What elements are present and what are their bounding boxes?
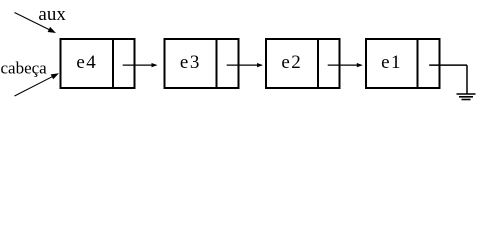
- svg-text:e1: e1: [381, 52, 402, 73]
- svg-text:cabeça: cabeça: [1, 59, 48, 78]
- svg-text:aux: aux: [38, 4, 66, 25]
- svg-text:e3: e3: [180, 52, 201, 73]
- svg-text:e2: e2: [281, 52, 302, 73]
- svg-text:e4: e4: [76, 52, 97, 73]
